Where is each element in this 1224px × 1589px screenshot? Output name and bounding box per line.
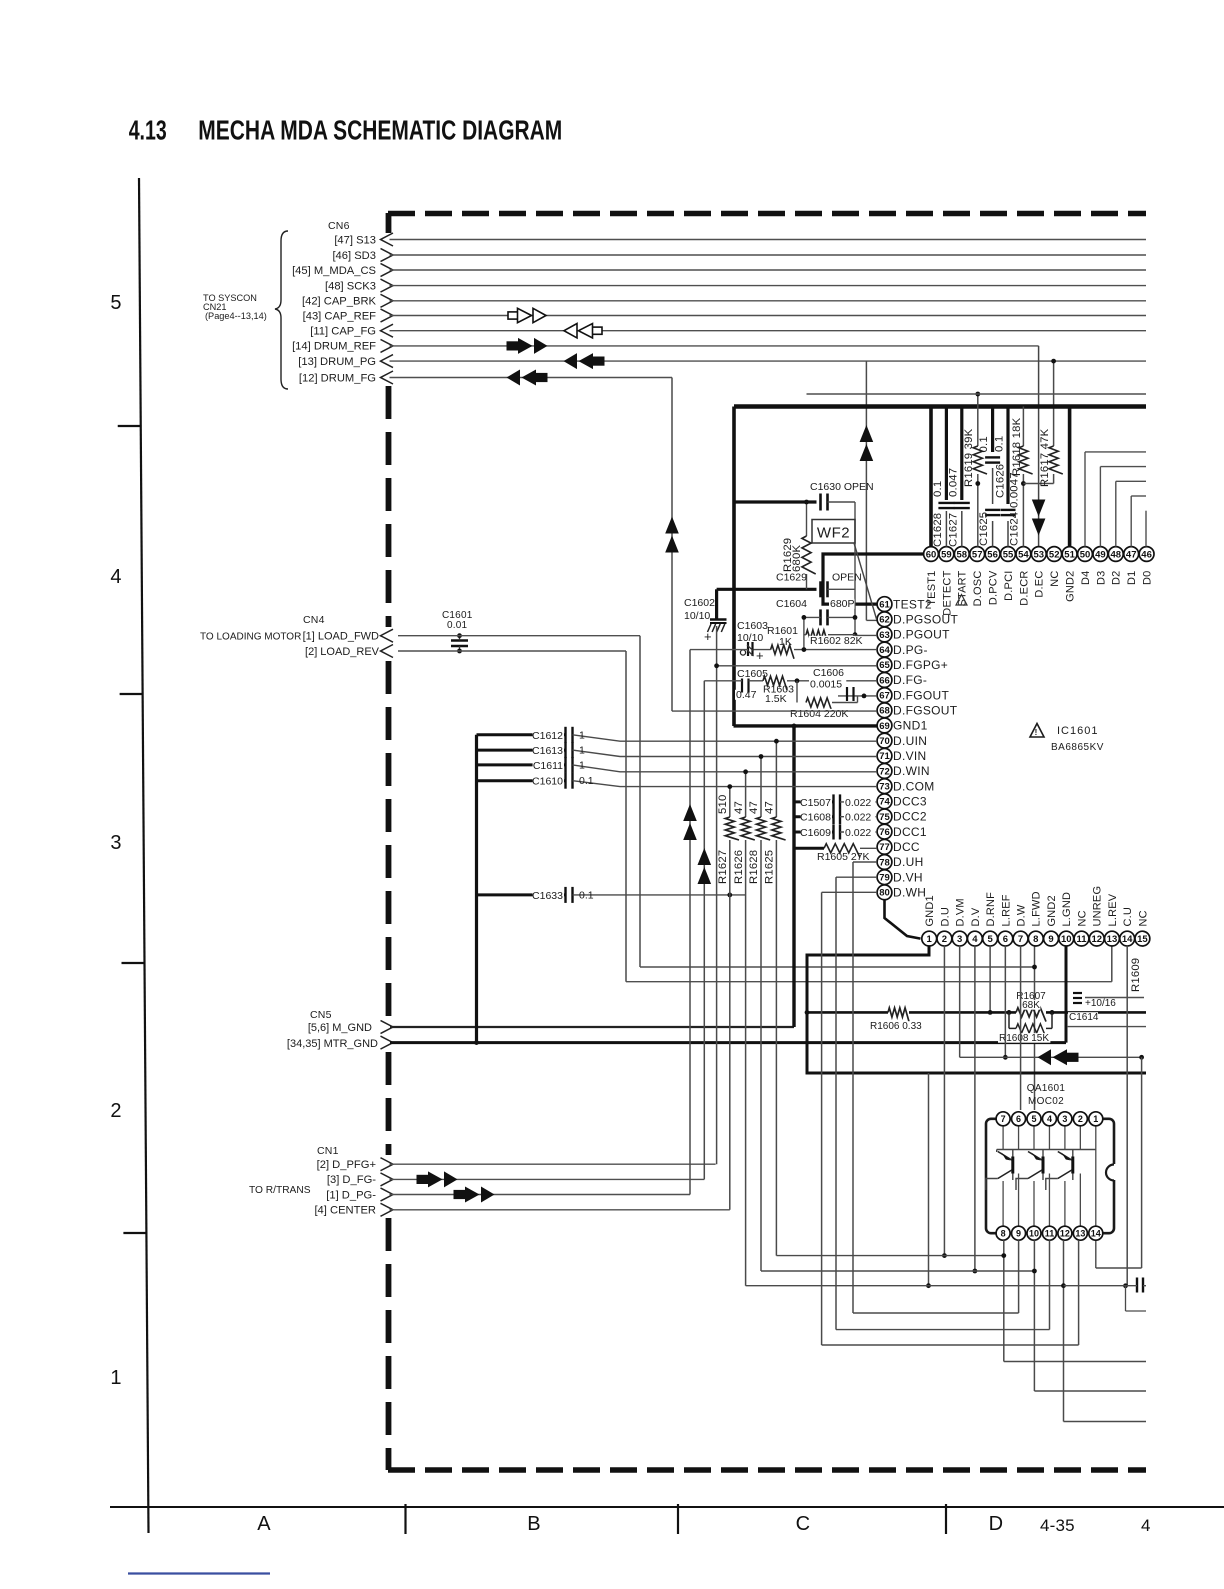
svg-text:D.FGSOUT: D.FGSOUT <box>893 703 958 717</box>
svg-text:74: 74 <box>879 797 890 808</box>
svg-text:D.RNF: D.RNF <box>985 892 997 927</box>
svg-text:0.1: 0.1 <box>994 436 1006 452</box>
svg-text:GND2: GND2 <box>1065 571 1077 602</box>
svg-text:R1628: R1628 <box>748 850 760 884</box>
svg-text:C1606: C1606 <box>813 667 844 679</box>
svg-text:[42] CAP_BRK: [42] CAP_BRK <box>302 296 377 308</box>
svg-text:8: 8 <box>1033 934 1038 945</box>
svg-text:TEST2: TEST2 <box>893 597 932 611</box>
svg-text:D.FGPG+: D.FGPG+ <box>893 658 948 672</box>
svg-text:D.PG-: D.PG- <box>893 643 928 657</box>
svg-text:L.REV: L.REV <box>1107 893 1119 926</box>
svg-text:D.VM: D.VM <box>955 898 967 926</box>
svg-text:GND1: GND1 <box>924 895 936 926</box>
svg-text:7: 7 <box>1018 934 1023 945</box>
svg-text:5: 5 <box>1031 1114 1036 1124</box>
svg-text:[11] CAP_FG: [11] CAP_FG <box>310 326 376 338</box>
svg-text:D.WIN: D.WIN <box>893 764 930 778</box>
svg-text:D.PCV: D.PCV <box>988 570 1000 605</box>
svg-text:47: 47 <box>764 801 776 814</box>
svg-text:QA1601: QA1601 <box>1027 1083 1066 1094</box>
svg-text:50: 50 <box>1080 549 1091 560</box>
svg-text:CN5: CN5 <box>310 1009 332 1021</box>
svg-text:[45] M_MDA_CS: [45] M_MDA_CS <box>292 265 376 277</box>
svg-text:79: 79 <box>879 873 890 884</box>
svg-text:R1605 27K: R1605 27K <box>817 851 870 863</box>
svg-text:MECHA MDA SCHEMATIC DIAGRAM: MECHA MDA SCHEMATIC DIAGRAM <box>198 115 562 146</box>
svg-text:2: 2 <box>110 1100 121 1122</box>
svg-text:10: 10 <box>1061 934 1072 945</box>
svg-text:C1604: C1604 <box>776 598 807 610</box>
svg-text:[14] DRUM_REF: [14] DRUM_REF <box>292 341 376 353</box>
svg-text:47: 47 <box>1126 549 1137 560</box>
svg-text:D.EC: D.EC <box>1034 571 1046 598</box>
svg-text:C1610: C1610 <box>532 776 563 788</box>
svg-text:GND2: GND2 <box>1046 895 1058 926</box>
svg-text:D: D <box>989 1513 1004 1535</box>
svg-text:0.0047: 0.0047 <box>1009 472 1021 508</box>
svg-text:D.W: D.W <box>1015 904 1027 926</box>
svg-text:[5,6] M_GND: [5,6] M_GND <box>308 1022 372 1034</box>
svg-text:71: 71 <box>879 751 890 762</box>
svg-text:0.1: 0.1 <box>978 436 990 452</box>
svg-text:C1603: C1603 <box>737 620 768 632</box>
svg-text:NC: NC <box>1137 910 1149 926</box>
svg-text:4: 4 <box>972 934 978 945</box>
svg-text:80: 80 <box>879 888 890 899</box>
svg-text:DCC3: DCC3 <box>893 795 927 809</box>
svg-text:10/10: 10/10 <box>737 632 763 644</box>
svg-text:D.FGOUT: D.FGOUT <box>893 688 949 702</box>
svg-text:9: 9 <box>1048 934 1053 945</box>
svg-text:D.ECR: D.ECR <box>1018 571 1030 606</box>
svg-text:+10/16: +10/16 <box>1085 998 1116 1009</box>
svg-text:DCC: DCC <box>893 840 920 854</box>
svg-text:D.UH: D.UH <box>893 855 924 869</box>
svg-text:13: 13 <box>1107 934 1118 945</box>
svg-text:D.U: D.U <box>939 907 951 927</box>
svg-text:[1] D_PG-: [1] D_PG- <box>326 1189 376 1201</box>
svg-text:49: 49 <box>1095 549 1106 560</box>
svg-text:R1618 18K: R1618 18K <box>1011 417 1023 476</box>
svg-text:69: 69 <box>879 721 890 732</box>
svg-text:0.022: 0.022 <box>845 812 871 824</box>
svg-text:680K: 680K <box>791 545 803 572</box>
svg-text:R1608 15K: R1608 15K <box>999 1033 1049 1044</box>
svg-text:R1606 0.33: R1606 0.33 <box>870 1021 922 1032</box>
svg-text:L.GND: L.GND <box>1061 892 1073 927</box>
svg-text:64: 64 <box>879 645 890 656</box>
svg-text:+: + <box>704 629 712 644</box>
svg-text:67: 67 <box>879 691 890 702</box>
svg-text:R1625: R1625 <box>764 850 776 884</box>
svg-text:1: 1 <box>579 745 585 757</box>
svg-text:MOC02: MOC02 <box>1028 1096 1064 1107</box>
svg-text:48: 48 <box>1111 549 1122 560</box>
svg-text:3: 3 <box>110 832 121 854</box>
svg-text:11: 11 <box>1045 1229 1055 1239</box>
svg-text:5: 5 <box>987 934 993 945</box>
svg-text:D1: D1 <box>1126 571 1138 585</box>
svg-text:4.13: 4.13 <box>129 115 167 146</box>
svg-text:D.WH: D.WH <box>893 886 926 900</box>
svg-text:0.047: 0.047 <box>948 468 960 497</box>
svg-text:D4: D4 <box>1080 571 1092 585</box>
svg-text:68: 68 <box>879 706 890 717</box>
svg-text:57: 57 <box>972 549 983 560</box>
svg-text:R1619 39K: R1619 39K <box>963 428 975 487</box>
svg-text:[4] CENTER: [4] CENTER <box>314 1205 376 1217</box>
svg-text:46: 46 <box>1141 549 1152 560</box>
svg-text:6: 6 <box>1003 934 1008 945</box>
svg-text:!: ! <box>1035 728 1038 737</box>
svg-text:68K: 68K <box>1022 1000 1040 1011</box>
svg-text:CN4: CN4 <box>303 614 325 626</box>
svg-text:65: 65 <box>879 660 890 671</box>
svg-text:D.VH: D.VH <box>893 870 923 884</box>
svg-text:[46] SD3: [46] SD3 <box>332 250 376 262</box>
svg-text:C1630 OPEN: C1630 OPEN <box>810 481 874 493</box>
svg-text:10: 10 <box>1029 1229 1039 1239</box>
svg-text:47: 47 <box>748 801 760 814</box>
svg-text:C1629: C1629 <box>776 572 807 584</box>
svg-text:8: 8 <box>1001 1229 1006 1239</box>
svg-text:3: 3 <box>957 934 962 945</box>
svg-text:0.01: 0.01 <box>447 620 468 631</box>
svg-text:11: 11 <box>1076 934 1087 945</box>
svg-text:4: 4 <box>1141 1516 1151 1535</box>
svg-text:R1604 220K: R1604 220K <box>790 708 848 720</box>
svg-text:D.V: D.V <box>970 907 982 926</box>
svg-text:72: 72 <box>879 766 890 777</box>
svg-text:DCC2: DCC2 <box>893 810 927 824</box>
svg-text:1: 1 <box>1093 1114 1098 1124</box>
svg-text:C1613: C1613 <box>532 745 563 757</box>
svg-text:3: 3 <box>1062 1114 1067 1124</box>
svg-text:[3] D_FG-: [3] D_FG- <box>327 1174 376 1186</box>
svg-text:C1609: C1609 <box>800 827 831 839</box>
svg-text:C1507: C1507 <box>800 797 831 809</box>
svg-text:53: 53 <box>1034 549 1045 560</box>
svg-text:C: C <box>796 1513 811 1535</box>
svg-text:D.PGOUT: D.PGOUT <box>893 628 950 642</box>
svg-text:C1633: C1633 <box>532 890 563 902</box>
svg-text:61: 61 <box>879 600 890 611</box>
svg-text:680P: 680P <box>830 598 855 610</box>
svg-text:63: 63 <box>879 630 890 641</box>
svg-text:14: 14 <box>1091 1229 1101 1239</box>
svg-text:73: 73 <box>879 782 890 793</box>
svg-text:56: 56 <box>987 549 998 560</box>
svg-text:TO R/TRANS: TO R/TRANS <box>249 1185 311 1196</box>
svg-text:62: 62 <box>879 615 890 626</box>
svg-text:[2] D_PFG+: [2] D_PFG+ <box>317 1159 376 1171</box>
svg-text:WF2: WF2 <box>817 525 850 542</box>
svg-text:(Page4--13,14): (Page4--13,14) <box>205 311 267 321</box>
svg-text:L.FWD: L.FWD <box>1031 891 1043 926</box>
svg-text:B: B <box>527 1513 541 1535</box>
svg-text:CN1: CN1 <box>317 1145 339 1157</box>
svg-text:4: 4 <box>1047 1114 1052 1124</box>
svg-text:58: 58 <box>957 549 968 560</box>
svg-text:A: A <box>257 1513 271 1535</box>
svg-text:9: 9 <box>1016 1229 1021 1239</box>
svg-text:4-35: 4-35 <box>1040 1516 1075 1535</box>
svg-text:13: 13 <box>1075 1229 1085 1239</box>
svg-text:59: 59 <box>941 549 952 560</box>
svg-text:C1614: C1614 <box>1069 1012 1099 1023</box>
svg-text:C.U: C.U <box>1122 907 1134 927</box>
svg-text:47: 47 <box>733 801 745 814</box>
svg-text:D.OSC: D.OSC <box>972 571 984 607</box>
svg-text:[12] DRUM_FG: [12] DRUM_FG <box>299 372 376 384</box>
svg-text:C1602: C1602 <box>684 597 715 609</box>
svg-text:[34,35] MTR_GND: [34,35] MTR_GND <box>287 1038 378 1050</box>
svg-text:D.PCI: D.PCI <box>1003 571 1015 601</box>
svg-text:C1628: C1628 <box>932 513 944 547</box>
svg-text:0.1: 0.1 <box>579 889 594 901</box>
svg-text:7: 7 <box>1001 1114 1006 1124</box>
svg-text:51: 51 <box>1064 549 1075 560</box>
svg-text:1: 1 <box>927 934 933 945</box>
svg-text:C1612: C1612 <box>532 730 563 742</box>
svg-text:DETECT: DETECT <box>941 570 953 615</box>
svg-text:75: 75 <box>879 812 890 823</box>
svg-text:R1609: R1609 <box>1130 958 1142 992</box>
svg-text:[48] SCK3: [48] SCK3 <box>325 280 376 292</box>
svg-text:2: 2 <box>1078 1114 1083 1124</box>
svg-text:D.VIN: D.VIN <box>893 749 927 763</box>
svg-text:2: 2 <box>942 934 947 945</box>
svg-text:78: 78 <box>879 857 890 868</box>
svg-text:[47] S13: [47] S13 <box>334 234 376 246</box>
svg-text:UNREG: UNREG <box>1092 886 1104 927</box>
svg-text:C1624: C1624 <box>1009 512 1021 546</box>
svg-text:D.FG-: D.FG- <box>893 673 927 687</box>
svg-text:D.PGSOUT: D.PGSOUT <box>893 612 958 626</box>
svg-text:510: 510 <box>717 795 729 814</box>
svg-text:NC: NC <box>1076 910 1088 926</box>
svg-text:[1] LOAD_FWD: [1] LOAD_FWD <box>303 631 379 643</box>
svg-text:R1617 47K: R1617 47K <box>1039 428 1051 487</box>
svg-text:D0: D0 <box>1142 571 1154 585</box>
svg-text:1: 1 <box>110 1367 121 1389</box>
svg-text:C1608: C1608 <box>800 812 831 824</box>
svg-text:6: 6 <box>1016 1114 1021 1124</box>
svg-text:70: 70 <box>879 736 890 747</box>
svg-text:0.47: 0.47 <box>736 689 757 701</box>
svg-text:54: 54 <box>1018 549 1029 560</box>
svg-text:C1625: C1625 <box>978 512 990 546</box>
svg-text:1: 1 <box>579 759 585 771</box>
svg-text:0.1: 0.1 <box>932 481 944 497</box>
svg-text:0.1: 0.1 <box>579 775 594 787</box>
svg-text:C1627: C1627 <box>948 513 960 547</box>
svg-text:DCC1: DCC1 <box>893 825 927 839</box>
svg-text:66: 66 <box>879 675 890 686</box>
svg-text:D.UIN: D.UIN <box>893 734 927 748</box>
svg-text:0.0015: 0.0015 <box>810 679 842 691</box>
svg-text:D.COM: D.COM <box>893 779 935 793</box>
svg-text:1: 1 <box>579 729 585 741</box>
svg-text:L.REF: L.REF <box>1000 894 1012 926</box>
svg-text:R1602 82K: R1602 82K <box>810 635 863 647</box>
svg-text:12: 12 <box>1091 934 1102 945</box>
svg-text:76: 76 <box>879 827 890 838</box>
svg-text:R1626: R1626 <box>733 850 745 884</box>
svg-text:5: 5 <box>110 292 121 314</box>
svg-text:D2: D2 <box>1111 571 1123 585</box>
svg-text:OPEN: OPEN <box>832 572 862 584</box>
svg-text:4: 4 <box>110 566 121 588</box>
svg-text:R1627: R1627 <box>717 850 729 884</box>
svg-text:[13] DRUM_PG: [13] DRUM_PG <box>298 356 376 368</box>
svg-text:NC: NC <box>1049 571 1061 587</box>
svg-text:1.5K: 1.5K <box>765 693 787 705</box>
svg-text:[43] CAP_REF: [43] CAP_REF <box>303 310 377 322</box>
svg-text:BA6865KV: BA6865KV <box>1051 742 1104 753</box>
svg-text:D3: D3 <box>1095 571 1107 585</box>
svg-text:GND1: GND1 <box>893 719 928 733</box>
svg-text:12: 12 <box>1060 1229 1070 1239</box>
svg-text:CN6: CN6 <box>328 220 350 232</box>
svg-text:0.022: 0.022 <box>845 797 871 809</box>
svg-text:10/10: 10/10 <box>684 610 710 622</box>
svg-text:IC1601: IC1601 <box>1057 725 1098 737</box>
svg-text:14: 14 <box>1122 934 1133 945</box>
svg-text:52: 52 <box>1049 549 1060 560</box>
svg-text:[2] LOAD_REV: [2] LOAD_REV <box>305 646 380 658</box>
svg-text:55: 55 <box>1003 549 1014 560</box>
svg-text:60: 60 <box>926 549 937 560</box>
svg-text:15: 15 <box>1137 934 1148 945</box>
svg-text:C1626: C1626 <box>995 464 1007 498</box>
svg-text:0.022: 0.022 <box>845 827 871 839</box>
svg-text:C1611: C1611 <box>533 760 563 772</box>
svg-text:TO LOADING MOTOR: TO LOADING MOTOR <box>200 632 301 643</box>
svg-text:77: 77 <box>879 842 890 853</box>
